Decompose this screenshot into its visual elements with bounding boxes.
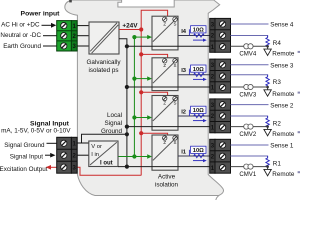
- wire +24V feed to isolator U3: [141, 54, 167, 57]
- svg-text:10Ω: 10Ω: [193, 28, 204, 34]
- wire U2 output to TB4 pin2: [178, 115, 210, 117]
- wire U1 output to TB3 pin2: [178, 155, 210, 157]
- terminal block TB3 (output ch1): [210, 139, 231, 173]
- node +24V from ps: [139, 27, 143, 31]
- remote ground symbol ch4: [267, 46, 269, 49]
- U1 span adjust pot: [173, 136, 177, 140]
- wire green I out from A1 to U1: [118, 156, 148, 158]
- svg-text:CMV4: CMV4: [239, 51, 257, 58]
- wire green feed to U3: [134, 78, 147, 80]
- svg-text:Signal Input: Signal Input: [30, 120, 70, 127]
- node ground bus junction ch3: [125, 85, 129, 89]
- wire +24V from PS1 to bus: [119, 29, 141, 31]
- node green ch3: [132, 77, 136, 81]
- module outline (device silhouette): [65, 0, 224, 196]
- module top-left corner pin: [69, 0, 72, 2]
- wire TB1-2 to psu: [77, 35, 89, 37]
- svg-text:I2: I2: [181, 109, 186, 115]
- svg-text:CMV3: CMV3: [239, 91, 257, 98]
- wire +24V feed to isolator U2: [141, 92, 167, 95]
- TB5 screw terminal pin 2: [220, 73, 226, 79]
- svg-text:I out: I out: [100, 160, 113, 166]
- TB4 screw terminal pin 3: [220, 102, 226, 108]
- ground bus (black, local signal ground): [119, 39, 127, 167]
- svg-text:Z: Z: [163, 21, 166, 26]
- wire ground bus to TB4 pin1 (through U2): [127, 126, 210, 128]
- CMV3 common-mode voltage symbol: [244, 84, 249, 89]
- wire TB3 pin1 to remote ground ch1: [231, 166, 268, 168]
- svg-text:Signal Ground: Signal Ground: [4, 142, 45, 149]
- op-amp A1 (V or I in / I out converter): [89, 141, 118, 167]
- svg-text:Z: Z: [163, 63, 166, 68]
- current direction arrow I3: [193, 78, 207, 81]
- svg-text:Sense 1: Sense 1: [270, 143, 294, 150]
- svg-text:S: S: [174, 21, 177, 26]
- resistor shunt 10 ohm ch4 (zigzag): [194, 34, 205, 37]
- svg-text:Signal: Signal: [104, 120, 122, 127]
- remote ground symbol ch3: [267, 87, 269, 90]
- TB5 screw terminal pin 1: [220, 84, 226, 90]
- wire TB6 pin1 to remote ground ch4: [231, 45, 268, 47]
- isolation amplifier U4: [152, 16, 178, 50]
- U1 zero adjust pot: [163, 136, 167, 140]
- svg-text:Power input: Power input: [21, 10, 61, 17]
- node +24V junction ch1: [139, 131, 143, 135]
- wire sense ch3: [231, 64, 269, 66]
- node ground bus junction ch2: [125, 125, 129, 129]
- svg-text:V or: V or: [91, 144, 102, 150]
- svg-text:Ground: Ground: [101, 128, 123, 135]
- node +24V junction ch2: [139, 90, 143, 94]
- svg-text:Sense 3: Sense 3: [270, 63, 294, 70]
- CMV1 common-mode voltage symbol: [244, 164, 249, 169]
- isolation amplifier U1: [152, 135, 178, 170]
- wire signal-ground link from TB2-1 to ground bus: [82, 134, 127, 143]
- svg-text:R2: R2: [273, 120, 282, 127]
- svg-text:Remote: Remote: [272, 51, 295, 58]
- CMV4 common-mode voltage symbol: [244, 44, 249, 49]
- remote ground symbol ch1: [267, 167, 269, 170]
- U3 span adjust pot: [173, 59, 177, 63]
- wire green feed to U4: [134, 36, 147, 38]
- remote wire stub ch3: [298, 92, 300, 94]
- node R1/remote junction: [266, 165, 269, 168]
- wire TB3 pin2 to R1: [231, 156, 268, 158]
- wire sense ch2: [231, 104, 269, 106]
- TB2 screw terminal pin 3: [61, 164, 67, 170]
- svg-text:S: S: [174, 63, 177, 68]
- svg-text:AC Hi or +DC: AC Hi or +DC: [1, 22, 40, 29]
- TB1 screw terminal pin 2: [61, 33, 67, 39]
- TB2 screw terminal pin 2: [61, 152, 67, 158]
- wire TB4 pin2 to R2: [231, 116, 268, 118]
- U4 zero adjust pot: [163, 17, 167, 21]
- wire sense ch1: [231, 144, 269, 146]
- node R2/remote junction: [266, 125, 269, 128]
- resistor R3 (load, zigzag): [266, 75, 269, 87]
- TB6 screw terminal pin 1: [220, 44, 226, 50]
- svg-text:Earth Ground: Earth Ground: [3, 43, 41, 50]
- node R4/remote junction: [266, 45, 269, 48]
- remote wire stub ch4: [298, 51, 300, 53]
- wire U3 output to TB5 pin2: [178, 74, 210, 76]
- wire TB2-2 to A1: [77, 154, 89, 156]
- svg-text:10Ω: 10Ω: [193, 108, 204, 114]
- wire TB4 pin1 to remote ground ch2: [231, 126, 268, 128]
- svg-text:Neutral or -DC: Neutral or -DC: [0, 32, 41, 39]
- value label 10 ohm ch2: [188, 110, 190, 116]
- wire +24V feed to isolator U1: [141, 133, 167, 135]
- svg-text:10Ω: 10Ω: [193, 67, 204, 73]
- TB4 screw terminal pin 2: [220, 113, 226, 119]
- TB6 screw terminal pin 2: [220, 32, 226, 38]
- CMV2 common-mode voltage symbol: [244, 124, 249, 129]
- isolation amplifier U3: [152, 58, 178, 91]
- terminal block TB6 (output ch4): [210, 18, 231, 52]
- value label 10 ohm ch3: [188, 69, 190, 75]
- resistor R2 (load, zigzag): [266, 116, 269, 127]
- current direction arrow I4: [193, 39, 207, 42]
- TB5 screw terminal pin 3: [220, 62, 226, 68]
- U2 span adjust pot: [173, 96, 177, 100]
- wire TB1-1 to psu: [77, 25, 89, 27]
- TB4 screw terminal pin 1: [220, 124, 226, 130]
- remote wire stub ch2: [298, 131, 300, 133]
- U3 zero adjust pot: [163, 59, 167, 63]
- terminal block TB5 (output ch3): [210, 59, 231, 93]
- svg-text:I4: I4: [181, 29, 187, 35]
- terminal block TB4 (output ch2): [210, 99, 231, 133]
- svg-text:Remote: Remote: [272, 171, 295, 178]
- current direction arrow I1: [193, 159, 207, 162]
- U2 zero adjust pot: [163, 96, 167, 100]
- resistor shunt 10 ohm ch3 (zigzag): [194, 73, 205, 76]
- svg-text:S: S: [174, 140, 177, 145]
- svg-text:10Ω: 10Ω: [193, 148, 204, 154]
- node green ch2: [132, 115, 136, 119]
- node R3/remote junction: [266, 86, 269, 89]
- svg-text:R4: R4: [273, 40, 282, 47]
- current direction arrow I2: [193, 119, 207, 122]
- TB3 screw terminal pin 2: [220, 153, 226, 159]
- wire TB2-1 to A1: [77, 142, 89, 144]
- U4 span adjust pot: [173, 17, 177, 21]
- value label 10 ohm ch1: [188, 150, 190, 156]
- svg-text:I in: I in: [91, 152, 99, 158]
- TB2 screw terminal pin 1: [61, 140, 67, 146]
- terminal block TB1 (power input, green): [57, 21, 77, 51]
- resistor R4 (load, zigzag): [266, 36, 269, 47]
- TB3 screw terminal pin 1: [220, 165, 226, 171]
- svg-text:Galvanically: Galvanically: [87, 59, 122, 66]
- svg-text:Signal Input: Signal Input: [10, 153, 44, 160]
- TB1 screw terminal pin 3: [61, 43, 67, 49]
- TB3 screw terminal pin 3: [220, 142, 226, 148]
- TB6 screw terminal pin 3: [220, 21, 226, 27]
- node ground bus junction ch4: [125, 44, 129, 48]
- svg-text:Sense 4: Sense 4: [270, 22, 294, 29]
- module outline break tail (bottom right): [216, 196, 219, 201]
- svg-text:Remote: Remote: [272, 91, 295, 98]
- value label 10 ohm ch4: [188, 29, 190, 35]
- node +24V junction ch3: [139, 52, 143, 56]
- wire TB5 pin2 to R3: [231, 75, 268, 77]
- wire TB1-3 to psu: [77, 45, 89, 47]
- svg-text:+24V: +24V: [122, 23, 138, 30]
- power supply PS1 (galvanically isolated ps): [89, 22, 119, 54]
- terminal block TB2 (signal input): [57, 137, 77, 173]
- wire TB6 pin2 to R4: [231, 36, 268, 38]
- node green ch4: [132, 35, 136, 39]
- svg-text:Sense 2: Sense 2: [270, 102, 294, 109]
- wire ground bus to TB5 pin1 (through U3): [127, 86, 210, 88]
- svg-text:R1: R1: [273, 160, 282, 167]
- svg-text:Remote: Remote: [272, 131, 295, 138]
- isolation amplifier U2: [152, 96, 178, 131]
- wire TB5 pin1 to remote ground ch3: [231, 86, 268, 88]
- svg-text:Local: Local: [107, 112, 122, 119]
- svg-text:R3: R3: [273, 79, 282, 86]
- wire sense ch4: [231, 23, 269, 25]
- TB1 screw terminal pin 1: [61, 23, 67, 29]
- wire U4 output to TB6 pin2: [178, 35, 210, 37]
- svg-text:I1: I1: [181, 149, 187, 155]
- wire green feed to U2: [134, 117, 147, 119]
- remote ground symbol ch2: [267, 127, 269, 130]
- svg-text:Excitation Output: Excitation Output: [0, 166, 48, 173]
- +24V bus (vertical red) with excitation return: [77, 10, 167, 175]
- svg-text:I3: I3: [181, 68, 187, 74]
- wire ground bus to TB6 pin1 (through U4): [127, 45, 210, 47]
- svg-text:isolated ps: isolated ps: [88, 67, 118, 74]
- svg-text:Z: Z: [163, 140, 166, 145]
- svg-text:Z: Z: [163, 101, 166, 106]
- node green ch1: [132, 154, 136, 158]
- svg-text:mA, 1-5V, 0-5V or 0-10V: mA, 1-5V, 0-5V or 0-10V: [1, 127, 71, 134]
- node ground bus / link junction: [125, 132, 129, 136]
- svg-text:CMV1: CMV1: [239, 171, 257, 178]
- svg-text:S: S: [174, 101, 177, 106]
- resistor shunt 10 ohm ch2 (zigzag): [194, 114, 205, 117]
- resistor R1 (load, zigzag): [266, 156, 269, 167]
- svg-text:isolation: isolation: [155, 181, 179, 188]
- svg-text:Active: Active: [158, 173, 176, 180]
- wire ground bus to TB3 pin1 (through U1): [118, 166, 210, 168]
- resistor shunt 10 ohm ch1 (zigzag): [194, 154, 205, 157]
- node ground bus junction ch1: [125, 165, 129, 169]
- remote wire stub ch1: [298, 171, 300, 173]
- svg-text:CMV2: CMV2: [239, 131, 257, 138]
- signal distribution bus (green): [133, 37, 135, 156]
